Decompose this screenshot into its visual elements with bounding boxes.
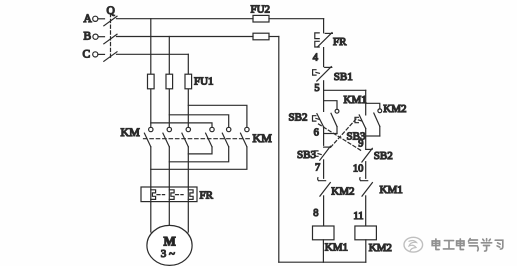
switch Q linkage dashed bbox=[110, 14, 112, 58]
FR heater element 2 bbox=[169, 187, 174, 202]
SB2 mechanical linkage dashed bbox=[319, 124, 362, 151]
svg-text:6: 6 bbox=[314, 128, 319, 139]
svg-text:FU2: FU2 bbox=[251, 4, 271, 16]
svg-text:KM: KM bbox=[253, 131, 273, 145]
KM2 aux NO contact bbox=[374, 103, 407, 126]
svg-text:KM2: KM2 bbox=[331, 186, 354, 198]
svg-text:KM2: KM2 bbox=[369, 242, 392, 254]
wire branch to KM reverse contact 4 bbox=[151, 123, 212, 127]
wire KM2 coil to bottom bbox=[365, 240, 367, 262]
coil KM1 bbox=[313, 226, 349, 254]
wire drop L3 bbox=[187, 54, 189, 127]
switch Q blade pole A bbox=[104, 16, 117, 26]
KM1 NC interlock contact bbox=[360, 178, 403, 196]
watermark logo bbox=[404, 237, 423, 252]
wire node5 horizontal bbox=[324, 89, 366, 91]
svg-text:KM2: KM2 bbox=[383, 103, 406, 115]
wire node9 horizontal bbox=[366, 135, 380, 137]
button SB3 NC bbox=[297, 146, 330, 161]
KM main contact 5 bbox=[222, 127, 231, 147]
wire phase C horizontal bbox=[117, 53, 189, 55]
svg-text:KM1: KM1 bbox=[380, 184, 403, 196]
wire phase A after fuse to control rail bbox=[269, 18, 324, 20]
switch Q blade pole B bbox=[104, 34, 117, 44]
start button SB3 NO bbox=[347, 115, 366, 143]
wire phase B after fuse to return rail bbox=[269, 36, 279, 38]
svg-text:M: M bbox=[164, 233, 176, 248]
KM main contact 3 bbox=[182, 127, 191, 147]
svg-text:SB2: SB2 bbox=[374, 150, 393, 162]
wire drop L1 bbox=[150, 19, 152, 128]
return rail vertical bbox=[278, 37, 280, 263]
coil KM2 bbox=[355, 226, 392, 254]
KM main contact 2 bbox=[163, 127, 172, 147]
stop button SB1 NC bbox=[313, 67, 353, 84]
wire contact3 down to FR bbox=[187, 147, 189, 187]
KM1 aux NO contact bbox=[331, 109, 339, 126]
FR heater linkage dashed bbox=[157, 194, 183, 196]
phase terminal C bbox=[83, 48, 105, 60]
svg-text:KM1: KM1 bbox=[344, 94, 367, 106]
svg-text:9: 9 bbox=[358, 139, 363, 150]
motor M bbox=[147, 225, 192, 265]
fuse FU2b bbox=[253, 33, 269, 40]
wire contact5 to L2 bbox=[169, 147, 228, 162]
svg-text:FU1: FU1 bbox=[194, 76, 214, 88]
KM main contact 4 bbox=[206, 127, 215, 147]
svg-text:FR: FR bbox=[200, 190, 214, 202]
switch Q blade pole C bbox=[104, 52, 117, 62]
KM main contact 1 bbox=[144, 127, 153, 147]
control rail left vertical bbox=[323, 19, 325, 226]
svg-text:SB3: SB3 bbox=[297, 149, 316, 161]
svg-text:B: B bbox=[84, 30, 92, 42]
thermal relay FR box bbox=[141, 187, 197, 202]
wire FR to motor u bbox=[150, 202, 152, 232]
FR heater element 1 bbox=[151, 187, 156, 202]
svg-text:FR: FR bbox=[333, 36, 347, 48]
wire KM2 aux branch top bbox=[366, 103, 380, 109]
wire contact1 down to FR bbox=[150, 147, 152, 187]
svg-text:SB2: SB2 bbox=[289, 112, 308, 124]
start button SB2 NO bbox=[289, 112, 324, 127]
fuse FU2a bbox=[253, 15, 269, 22]
FR heater element 3 bbox=[188, 187, 193, 202]
wire drop L2 bbox=[168, 37, 170, 128]
watermark text 电工电气学习 bbox=[432, 239, 503, 252]
control rail right vertical bbox=[365, 90, 367, 226]
svg-text:5: 5 bbox=[314, 83, 319, 94]
svg-text:A: A bbox=[84, 13, 93, 25]
button SB2 NC bbox=[362, 148, 393, 162]
wire KM1 coil to bottom bbox=[322, 240, 324, 262]
svg-text:C: C bbox=[83, 48, 91, 60]
wire KM2 aux branch bottom bbox=[379, 126, 381, 136]
wire KM1 aux branch bottom bbox=[336, 127, 338, 134]
svg-text:KM1: KM1 bbox=[325, 242, 348, 254]
KM main contact 6 bbox=[241, 127, 250, 147]
wire branch to KM reverse contact 5 bbox=[169, 115, 228, 128]
wire FR to motor w bbox=[187, 202, 189, 232]
wire KM1 aux branch top bbox=[324, 101, 337, 110]
fuse FU1a bbox=[148, 74, 155, 89]
svg-text:3 ~: 3 ~ bbox=[161, 248, 175, 260]
wire contact2 down to FR bbox=[168, 147, 170, 187]
wire phase B horizontal bbox=[117, 36, 254, 38]
wire node6 horizontal bbox=[324, 133, 337, 135]
KM main contacts linkage dashed bbox=[144, 138, 251, 140]
phase terminal B bbox=[84, 30, 105, 42]
fuse FU1b bbox=[166, 74, 173, 89]
wire phase A horizontal bbox=[117, 18, 254, 20]
wire branch to KM reverse contact 6 bbox=[188, 105, 247, 127]
svg-text:KM: KM bbox=[121, 125, 141, 139]
svg-text:SB1: SB1 bbox=[334, 71, 353, 83]
svg-text:7: 7 bbox=[315, 163, 320, 174]
fuse FU1c bbox=[185, 74, 192, 89]
svg-text:10: 10 bbox=[353, 163, 364, 174]
wire contact6 cross to L1 bbox=[151, 147, 247, 170]
KM2 NC interlock contact bbox=[318, 178, 355, 198]
svg-text:8: 8 bbox=[313, 208, 318, 219]
phase terminal A bbox=[84, 13, 105, 25]
svg-text:11: 11 bbox=[353, 211, 363, 222]
FR NC contact bbox=[315, 33, 347, 48]
return rail bottom horizontal bbox=[279, 261, 366, 263]
SB3 mechanical linkage dashed bbox=[330, 119, 357, 149]
wire FR to motor v bbox=[168, 202, 170, 226]
wire contact4 cross to L3 bbox=[188, 147, 212, 154]
svg-text:4: 4 bbox=[313, 52, 319, 63]
